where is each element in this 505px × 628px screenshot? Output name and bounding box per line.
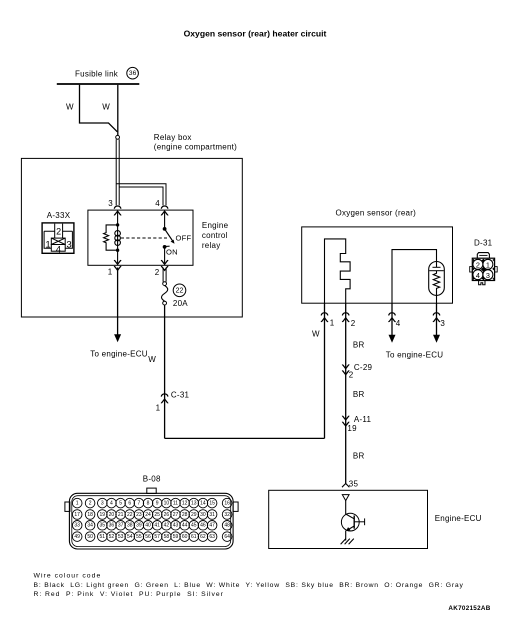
input triangle xyxy=(342,495,349,501)
svg-text:7: 7 xyxy=(138,501,141,507)
svg-text:W: W xyxy=(102,103,110,112)
svg-text:2: 2 xyxy=(476,260,480,269)
pin 3 junction xyxy=(114,206,121,215)
svg-text:34: 34 xyxy=(87,523,93,529)
svg-text:24: 24 xyxy=(145,512,151,518)
svg-text:16: 16 xyxy=(224,501,230,507)
svg-text:W: W xyxy=(66,103,74,112)
ground xyxy=(341,539,354,545)
svg-text:Engine-ECU: Engine-ECU xyxy=(435,514,482,523)
svg-text:59: 59 xyxy=(173,534,179,540)
svg-text:32: 32 xyxy=(224,512,230,518)
svg-text:2: 2 xyxy=(351,319,356,328)
wire W left from fusible link xyxy=(80,85,118,132)
arrow to engine-ECU left xyxy=(114,334,121,342)
svg-text:4: 4 xyxy=(476,271,480,280)
svg-text:12: 12 xyxy=(182,501,188,507)
svg-text:46: 46 xyxy=(200,523,206,529)
svg-text:To engine-ECU: To engine-ECU xyxy=(90,349,148,358)
svg-text:1: 1 xyxy=(486,260,490,269)
node bottom of coil xyxy=(116,249,119,252)
svg-text:31: 31 xyxy=(209,512,215,518)
svg-text:20A: 20A xyxy=(173,299,188,308)
svg-text:W: W xyxy=(148,355,156,364)
svg-text:63: 63 xyxy=(209,534,215,540)
svg-text:Oxygen sensor (rear) heater ci: Oxygen sensor (rear) heater circuit xyxy=(184,29,327,39)
wire bottom horizontal run xyxy=(165,437,325,439)
switch ON contact xyxy=(163,245,167,249)
svg-text:1: 1 xyxy=(108,267,113,276)
svg-text:61: 61 xyxy=(191,534,197,540)
svg-text:10: 10 xyxy=(164,501,170,507)
svg-text:B-08: B-08 xyxy=(143,474,161,483)
relay coil L1 xyxy=(117,225,119,250)
svg-text:W: W xyxy=(312,329,320,338)
svg-text:11: 11 xyxy=(173,501,178,507)
svg-text:D-31: D-31 xyxy=(474,238,493,247)
sensor pin 3 junction xyxy=(433,313,440,322)
svg-text:3: 3 xyxy=(66,240,71,251)
svg-text:62: 62 xyxy=(200,534,206,540)
svg-text:15: 15 xyxy=(209,501,215,507)
sensor pin 2 junction xyxy=(342,313,349,322)
svg-text:28: 28 xyxy=(182,512,188,518)
svg-text:18: 18 xyxy=(87,512,93,518)
svg-text:40: 40 xyxy=(145,523,151,529)
wire pin3 to coil xyxy=(117,212,119,225)
svg-text:50: 50 xyxy=(87,534,93,540)
svg-text:57: 57 xyxy=(154,534,160,540)
svg-text:9: 9 xyxy=(156,501,159,507)
fuse 22 symbol xyxy=(163,282,167,286)
svg-text:43: 43 xyxy=(173,523,179,529)
wire double-line pin2 to fuse xyxy=(163,268,166,282)
heater resistor xyxy=(433,271,439,291)
wire to ground xyxy=(345,531,347,541)
switch common node xyxy=(163,227,167,231)
svg-text:B: Black LG: Light green G:: B: Black LG: Light green G: Green L: Blu… xyxy=(34,582,464,589)
transistor base lead xyxy=(354,521,364,523)
svg-text:1: 1 xyxy=(330,319,335,328)
svg-text:4: 4 xyxy=(110,501,113,507)
pin 2 junction xyxy=(161,261,168,271)
svg-text:37: 37 xyxy=(118,523,124,529)
sensor pin 4 junction xyxy=(388,313,395,322)
svg-text:20: 20 xyxy=(109,512,115,518)
dashed actuation link xyxy=(121,237,167,239)
svg-text:1: 1 xyxy=(156,403,161,412)
svg-text:3: 3 xyxy=(440,319,445,328)
svg-text:OFF: OFF xyxy=(176,233,192,242)
svg-text:45: 45 xyxy=(191,523,197,529)
svg-text:23: 23 xyxy=(136,512,142,518)
svg-text:control: control xyxy=(202,231,228,240)
sensor pin 1 junction xyxy=(321,313,328,322)
wire double-line from joint to pin 3 xyxy=(116,139,119,205)
engine-ECU outline xyxy=(269,490,428,548)
svg-text:48: 48 xyxy=(224,523,230,529)
svg-text:44: 44 xyxy=(182,523,188,529)
wire triangle to transistor xyxy=(345,501,347,514)
svg-text:2: 2 xyxy=(349,371,354,380)
svg-text:30: 30 xyxy=(200,512,206,518)
svg-text:Wire colour code: Wire colour code xyxy=(34,572,102,579)
svg-text:BR: BR xyxy=(353,452,365,461)
svg-text:41: 41 xyxy=(154,523,160,529)
wire pin 3 down xyxy=(436,303,438,335)
wire up to sensor pin 1 xyxy=(324,303,326,438)
sensor element zigzag xyxy=(325,239,351,303)
svg-text:22: 22 xyxy=(176,287,184,294)
svg-text:5: 5 xyxy=(119,501,122,507)
svg-text:26: 26 xyxy=(164,512,170,518)
svg-text:52: 52 xyxy=(109,534,115,540)
connector A-11 junction xyxy=(342,416,349,426)
svg-text:(engine compartment): (engine compartment) xyxy=(154,142,237,151)
svg-text:Fusible link: Fusible link xyxy=(75,69,119,78)
svg-text:53: 53 xyxy=(118,534,124,540)
svg-text:19: 19 xyxy=(100,512,106,518)
transistor Q xyxy=(341,513,359,531)
svg-text:1: 1 xyxy=(76,501,79,507)
connector C-31 junction xyxy=(161,394,168,403)
svg-text:4: 4 xyxy=(155,199,160,208)
svg-text:21: 21 xyxy=(118,512,124,518)
pin 4 junction xyxy=(161,206,168,215)
svg-text:BR: BR xyxy=(353,341,365,350)
svg-text:4: 4 xyxy=(396,319,401,328)
svg-text:56: 56 xyxy=(145,534,151,540)
wire pin 4 down xyxy=(391,303,393,335)
fusible link number 36 xyxy=(127,67,139,79)
svg-text:36: 36 xyxy=(109,523,115,529)
oxygen sensor outline xyxy=(302,227,453,303)
svg-text:1: 1 xyxy=(45,240,50,251)
heater feed wire inside xyxy=(392,250,437,303)
svg-text:2: 2 xyxy=(155,268,160,277)
svg-text:2: 2 xyxy=(56,227,61,237)
svg-text:54: 54 xyxy=(127,534,133,540)
wire pin 2 down to ECU xyxy=(345,303,347,483)
svg-text:55: 55 xyxy=(136,534,142,540)
svg-text:8: 8 xyxy=(147,501,150,507)
svg-text:35: 35 xyxy=(349,480,359,489)
svg-text:Relay box: Relay box xyxy=(154,133,192,142)
svg-text:36: 36 xyxy=(129,70,137,77)
svg-text:A-33X: A-33X xyxy=(47,211,71,220)
heater capsule xyxy=(429,262,445,296)
svg-text:ON: ON xyxy=(166,248,178,257)
svg-text:64: 64 xyxy=(224,534,230,540)
connector icon D-31 xyxy=(470,253,498,285)
svg-text:2: 2 xyxy=(89,501,92,507)
wire pin4 to switch xyxy=(164,212,166,229)
ECU pin 35 terminal xyxy=(342,484,349,488)
svg-text:17: 17 xyxy=(74,512,80,518)
connector icon B-08 pins xyxy=(72,498,232,541)
svg-text:13: 13 xyxy=(191,501,197,507)
svg-text:AK702152AB: AK702152AB xyxy=(448,605,490,612)
connector icon B-08 body xyxy=(65,488,238,549)
fuse number 22 xyxy=(173,284,186,297)
svg-text:6: 6 xyxy=(128,501,131,507)
svg-text:49: 49 xyxy=(74,534,80,540)
svg-text:Engine: Engine xyxy=(202,221,229,230)
node top of coil xyxy=(116,223,119,226)
svg-text:3: 3 xyxy=(108,199,113,208)
svg-text:4: 4 xyxy=(56,245,62,256)
switch blade xyxy=(165,229,173,241)
relay box outline xyxy=(21,158,242,317)
svg-text:25: 25 xyxy=(154,512,160,518)
connector icon A-33X xyxy=(42,223,74,253)
svg-text:60: 60 xyxy=(182,534,188,540)
wire W right from fusible link xyxy=(117,85,119,136)
svg-text:19: 19 xyxy=(347,424,357,433)
svg-text:C-31: C-31 xyxy=(171,390,190,399)
svg-text:51: 51 xyxy=(100,534,106,540)
svg-text:Oxygen sensor (rear): Oxygen sensor (rear) xyxy=(336,208,417,217)
svg-text:47: 47 xyxy=(209,523,215,529)
svg-text:3: 3 xyxy=(101,501,104,507)
svg-text:R: Red P: Pink V: Violet PU: R: Red P: Pink V: Violet PU: Purple SI: … xyxy=(34,591,224,598)
arrow to engine-ECU pin3 xyxy=(433,335,440,343)
svg-text:39: 39 xyxy=(136,523,142,529)
svg-text:3: 3 xyxy=(486,271,490,280)
wire fuse to corner xyxy=(164,305,166,438)
svg-text:27: 27 xyxy=(173,512,179,518)
pin 1 junction xyxy=(114,261,121,271)
svg-text:58: 58 xyxy=(164,534,170,540)
svg-text:relay: relay xyxy=(202,241,221,250)
svg-text:To engine-ECU: To engine-ECU xyxy=(386,351,444,360)
wire coil to pin 1 xyxy=(117,250,119,263)
svg-text:BR: BR xyxy=(353,390,365,399)
arrow to engine-ECU pin4 xyxy=(389,335,396,343)
wire pin 1 down xyxy=(117,268,119,335)
joint circle xyxy=(116,135,120,139)
resistor branch of relay coil xyxy=(104,225,118,250)
wire double-line branch to pin 4 xyxy=(116,184,166,206)
svg-text:C-29: C-29 xyxy=(354,363,373,372)
connector C-29 junction xyxy=(342,365,349,375)
svg-text:38: 38 xyxy=(127,523,133,529)
fusible link bus bar xyxy=(57,83,140,85)
engine control relay outline xyxy=(88,210,193,265)
wire ON to pin 2 xyxy=(164,247,166,263)
svg-text:35: 35 xyxy=(100,523,106,529)
svg-text:14: 14 xyxy=(200,501,206,507)
svg-text:33: 33 xyxy=(74,523,80,529)
svg-text:22: 22 xyxy=(127,512,133,518)
svg-text:42: 42 xyxy=(164,523,170,529)
svg-text:29: 29 xyxy=(191,512,197,518)
